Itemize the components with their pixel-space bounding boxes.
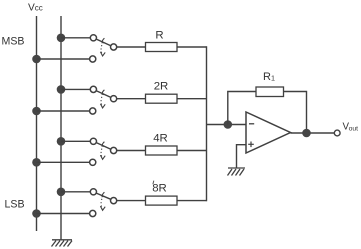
wire: Vcc rail (left vertical) xyxy=(36,16,38,231)
node: summing junction xyxy=(224,120,233,129)
op-amp U1 xyxy=(246,112,291,153)
switch S2 xyxy=(90,86,117,114)
value label 8R xyxy=(152,181,167,195)
svg-text:R: R xyxy=(263,71,271,83)
wire: ground rail (second vertical) xyxy=(60,16,62,240)
wire: resistor R to summing bus xyxy=(177,46,207,48)
wire: op-amp output xyxy=(291,132,335,134)
wire: gnd rail to S2 top throw xyxy=(61,88,90,90)
node: Vcc rail / S2 bottom throw junction xyxy=(32,107,41,116)
svg-text:out: out xyxy=(349,125,359,132)
wire: gnd rail to S4 top throw xyxy=(61,191,90,193)
wire: resistor 2R to summing bus xyxy=(177,98,207,100)
switch S1 xyxy=(90,35,117,62)
ground (op-amp non-inverting input) xyxy=(228,168,246,176)
resistor R xyxy=(146,43,178,52)
resistor R1 xyxy=(256,87,284,97)
wire: summing bus (vertical) xyxy=(206,46,208,201)
node: gnd rail / S3 top throw junction xyxy=(57,137,66,146)
wire: resistor 8R to summing bus xyxy=(177,200,207,202)
svg-text:4R: 4R xyxy=(153,133,168,145)
terminal: Vout xyxy=(334,130,340,136)
node: gnd rail / S2 top throw junction xyxy=(57,85,66,94)
svg-text:1: 1 xyxy=(271,74,275,83)
node: output junction xyxy=(302,129,311,138)
wire: non-inverting input to ground xyxy=(237,145,247,168)
node: Vcc rail / S3 bottom throw junction xyxy=(32,158,41,167)
svg-text:LSB: LSB xyxy=(5,198,25,210)
wire: S4 pole to resistor 8R xyxy=(117,200,146,202)
wire: summing bus to op-amp inverting input xyxy=(207,124,247,126)
wire: Vcc rail to S2 bottom throw xyxy=(37,110,90,112)
resistor 8R xyxy=(146,196,178,205)
wire: Vcc rail to S4 bottom throw xyxy=(37,213,90,215)
Vout label xyxy=(343,122,359,133)
wire: S3 pole to resistor 4R xyxy=(117,150,146,152)
wire: gnd rail to S3 top throw xyxy=(61,140,90,142)
value label R1 xyxy=(263,71,275,83)
ground (bottom of ground rail) xyxy=(52,240,73,247)
svg-text:2R: 2R xyxy=(154,81,169,93)
svg-text:R: R xyxy=(155,30,163,42)
wire: S2 pole to resistor 2R xyxy=(117,98,146,100)
resistor 4R xyxy=(146,146,178,155)
resistor 2R xyxy=(146,94,178,103)
svg-text:MSB: MSB xyxy=(2,36,25,48)
wire: Vcc rail to S3 bottom throw xyxy=(37,161,90,163)
wire: resistor 4R to summing bus xyxy=(177,150,207,152)
wire: S1 pole to resistor R xyxy=(117,46,146,48)
wire: R1 to output node xyxy=(284,92,307,134)
node: gnd rail / S1 top throw junction xyxy=(57,34,66,43)
svg-text:cc: cc xyxy=(35,4,43,13)
switch S4 xyxy=(90,189,117,217)
wire: gnd rail to S1 top throw xyxy=(61,37,90,39)
node: gnd rail / S4 top throw junction xyxy=(57,188,66,197)
wire: feedback left riser xyxy=(228,92,256,125)
wire: Vcc rail to S1 bottom throw xyxy=(37,58,90,60)
Vcc label xyxy=(28,2,43,13)
node: Vcc rail / S4 bottom throw junction xyxy=(32,209,41,218)
node: Vcc rail / S1 bottom throw junction xyxy=(32,55,41,64)
switch S3 xyxy=(90,138,117,165)
svg-text:8R: 8R xyxy=(152,183,167,195)
